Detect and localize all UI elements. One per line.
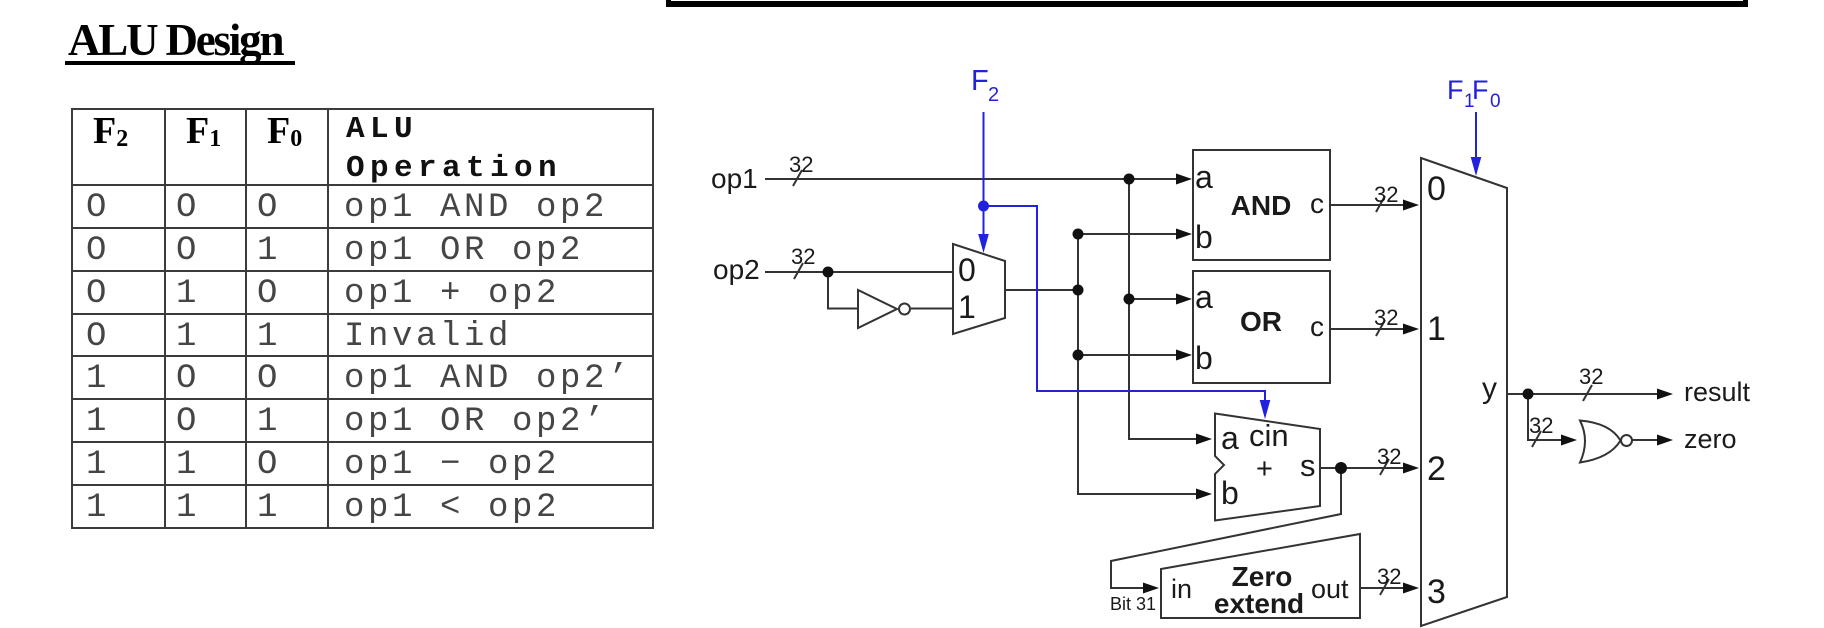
arrowhead NOR input: [1561, 435, 1577, 446]
svg-text:0: 0: [1490, 91, 1501, 112]
wire adder s output: [1320, 467, 1411, 469]
wire inverter output to mux1 input 1: [911, 308, 953, 310]
svg-text:32: 32: [1579, 364, 1603, 389]
svg-text:s: s: [1300, 448, 1316, 483]
bus slash op1: [793, 170, 802, 186]
svg-text:out: out: [1311, 574, 1349, 604]
svg-text:F: F: [1472, 75, 1489, 105]
wire F2 control drop: [983, 112, 985, 240]
bus slash zero: [1532, 431, 1541, 447]
svg-text:y: y: [1482, 372, 1497, 405]
arrowhead mux2 input 1: [1403, 324, 1419, 335]
arrowhead adder a: [1196, 434, 1212, 445]
arrowhead F2 into adder cin: [1260, 400, 1271, 419]
svg-text:32: 32: [1374, 305, 1398, 330]
svg-text:1: 1: [958, 289, 976, 325]
arrowhead zero: [1657, 435, 1673, 446]
wire to OR a: [1129, 298, 1184, 300]
svg-text:0: 0: [1427, 170, 1446, 208]
AND unit U1: [1193, 150, 1330, 260]
wire OR c output: [1330, 328, 1411, 330]
arrowhead mux2 input 3: [1403, 583, 1419, 594]
zero-extend unit U4: [1161, 534, 1360, 618]
wire to OR b: [1078, 354, 1184, 356]
slide frame bottom bar: [666, 1, 1747, 7]
mux1 2:1 mux: [953, 244, 1005, 334]
wire op2: [765, 271, 953, 273]
bus slash op2: [794, 263, 803, 279]
svg-text:c: c: [1310, 188, 1324, 219]
svg-text:32: 32: [791, 244, 815, 269]
svg-text:2: 2: [1427, 450, 1446, 488]
arrowhead zero-extend in: [1143, 583, 1159, 594]
wire mux2 y output to result: [1507, 393, 1665, 395]
svg-text:c: c: [1310, 311, 1324, 342]
bus slash zero-extend out: [1380, 579, 1389, 595]
OR unit U2: [1193, 271, 1330, 383]
bus slash AND out: [1376, 196, 1385, 212]
svg-text:0: 0: [958, 252, 976, 288]
wire y to NOR input: [1528, 394, 1569, 440]
bus slash result: [1583, 385, 1592, 401]
arrowhead mux2 input 2: [1403, 463, 1419, 474]
junction OR a bus: [1124, 294, 1135, 305]
junction OR b bus: [1073, 350, 1084, 361]
wire vertical bus to adder b: [1078, 234, 1204, 494]
arrowhead F2 into mux1: [978, 234, 989, 253]
arrowhead OR a: [1176, 294, 1192, 305]
svg-text:b: b: [1195, 219, 1213, 255]
wire adder s to zero-extend in: [1111, 468, 1341, 588]
svg-text:1: 1: [1427, 310, 1446, 348]
svg-text:zero: zero: [1684, 424, 1737, 454]
junction mux1 out bus: [1073, 285, 1084, 296]
bus slash OR out: [1376, 320, 1385, 336]
svg-text:2: 2: [988, 84, 999, 106]
mux2 4:1 mux: [1421, 158, 1507, 626]
junction F2 branch: [978, 201, 989, 212]
svg-text:32: 32: [789, 152, 813, 177]
junction y out: [1523, 389, 1534, 400]
wire vertical op1 bus to adder a: [1129, 179, 1204, 439]
arrowhead mux2 input 0: [1403, 200, 1419, 211]
wire zero-extend out: [1360, 587, 1411, 589]
arrowhead result: [1657, 389, 1673, 400]
wire op1: [765, 178, 1184, 180]
svg-text:32: 32: [1377, 444, 1401, 469]
svg-text:a: a: [1195, 159, 1213, 195]
svg-text:extend: extend: [1214, 588, 1304, 619]
svg-text:in: in: [1171, 574, 1192, 604]
arrowhead F1F0 into mux2: [1471, 157, 1482, 176]
wire NOR output to zero: [1632, 439, 1665, 441]
svg-text:b: b: [1221, 475, 1239, 511]
wire F1F0 control drop: [1475, 112, 1477, 164]
junction AND b bus: [1073, 229, 1084, 240]
svg-text:32: 32: [1374, 182, 1398, 207]
svg-text:a: a: [1221, 420, 1239, 456]
svg-text:op1: op1: [711, 163, 758, 194]
wire mux1 output: [1006, 289, 1078, 291]
svg-text:OR: OR: [1240, 306, 1282, 337]
svg-text:32: 32: [1377, 564, 1401, 589]
inverter gate: [858, 290, 897, 328]
adder U3: [1215, 414, 1320, 521]
svg-text:op2: op2: [713, 254, 760, 285]
arrowhead adder b: [1196, 489, 1212, 500]
svg-text:F: F: [971, 65, 989, 97]
arrowhead OR b: [1176, 350, 1192, 361]
svg-text:+: +: [1256, 453, 1273, 485]
bus slash adder out: [1380, 459, 1389, 475]
wire op2 to inverter: [828, 272, 857, 309]
arrowhead AND a: [1176, 174, 1192, 185]
wire AND c output: [1330, 204, 1411, 206]
wire to AND b: [1078, 233, 1184, 235]
wire F2 branch to adder cin: [984, 206, 1266, 406]
svg-text:cin: cin: [1249, 418, 1289, 453]
junction op1 bus: [1124, 174, 1135, 185]
junction adder s out: [1335, 462, 1347, 474]
NOR gate: [1580, 421, 1621, 463]
svg-text:F: F: [1447, 75, 1464, 105]
svg-text:result: result: [1684, 377, 1751, 407]
svg-text:a: a: [1195, 279, 1213, 315]
svg-text:32: 32: [1529, 413, 1553, 438]
svg-text:AND: AND: [1231, 190, 1292, 221]
svg-text:b: b: [1195, 340, 1213, 376]
svg-text:Bit 31: Bit 31: [1110, 594, 1156, 614]
svg-text:3: 3: [1427, 573, 1446, 611]
arrowhead AND b: [1176, 229, 1192, 240]
junction op2 split: [823, 267, 834, 278]
